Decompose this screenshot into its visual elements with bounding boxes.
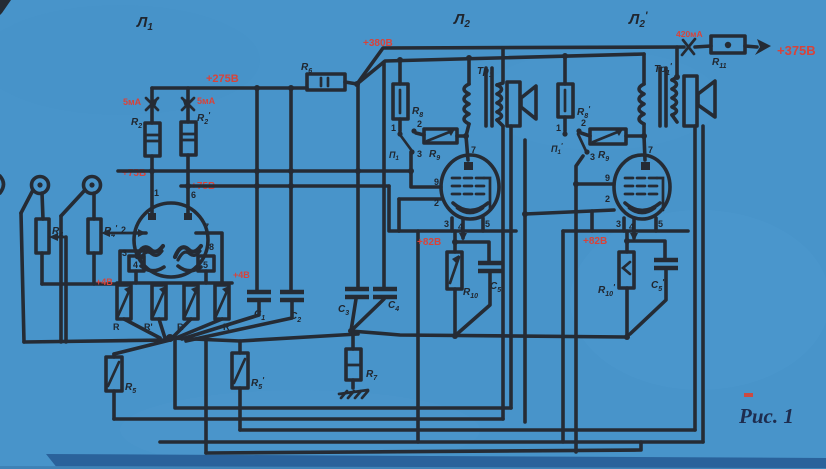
svg-text:5мА: 5мА <box>123 97 142 107</box>
L1 pin3 lead down to pot row <box>120 251 147 283</box>
node sec' top <box>674 74 680 80</box>
wire speaker1 frame lead down <box>509 126 513 408</box>
svg-text:2: 2 <box>581 118 586 128</box>
wire pot1 to fan <box>124 319 160 338</box>
node R10 bottom <box>452 333 458 339</box>
input jack 2 <box>61 177 101 220</box>
resistor R2' <box>181 88 211 186</box>
wire jack1 ground down left edge <box>21 213 24 342</box>
resistor R10' <box>598 252 634 337</box>
rail pin1 (+75V) to P1 switch <box>118 169 411 173</box>
Tr1' secondary coil <box>672 47 677 122</box>
resistor R5' <box>232 341 265 430</box>
node cathode L2 <box>452 239 458 245</box>
L1 pin2 grid lead <box>121 225 146 237</box>
svg-text:7: 7 <box>471 145 476 155</box>
svg-text:+375В: +375В <box>777 43 816 58</box>
L1 pin1 lead <box>148 171 159 220</box>
node bus2 R8' <box>562 53 568 59</box>
switch P1' <box>551 118 595 162</box>
bus +380V <box>357 54 644 84</box>
resistor R9' <box>581 129 644 163</box>
svg-text:3: 3 <box>444 219 449 229</box>
L2' pin2 lead <box>525 194 614 231</box>
wire rail2 drop <box>389 186 399 231</box>
svg-text:+380В: +380В <box>363 38 393 49</box>
potentiometer R3d <box>215 285 230 332</box>
speaker 2 <box>684 76 715 126</box>
L1 grid 2 squiggle <box>175 246 201 257</box>
triode L1 envelope <box>134 203 208 277</box>
L1 cathode arc 1 <box>141 266 164 271</box>
wiper P1' link down to grid row <box>576 156 583 184</box>
arrow terminal +375V <box>755 39 771 55</box>
svg-text:+275В: +275В <box>206 73 239 85</box>
node on bus at C1 <box>254 85 260 91</box>
svg-text:5: 5 <box>203 260 208 270</box>
node rail1 x291 <box>288 168 294 174</box>
node rail1 x358 <box>355 168 361 174</box>
L1 pin5 box <box>198 256 214 283</box>
svg-text:1: 1 <box>556 123 561 133</box>
L2 pin2 lead <box>399 198 441 231</box>
potentiometer R3a <box>113 285 131 332</box>
L2 screen bend wire <box>484 178 490 210</box>
node pin2' junction <box>522 211 528 217</box>
resistor R8 <box>393 60 423 131</box>
Tr1 secondary coil <box>497 48 503 126</box>
L2 pin5 lead <box>483 218 490 231</box>
svg-text:9: 9 <box>605 173 610 183</box>
L2' pin5 lead <box>656 218 663 231</box>
Tr1 primary coil <box>464 58 469 136</box>
top bus +375V <box>357 47 684 84</box>
resistor R11 <box>711 36 745 70</box>
svg-text:8: 8 <box>209 242 214 252</box>
pentode L2 envelope <box>441 155 499 219</box>
node cathode L2' <box>624 238 630 244</box>
wire switch return left channel <box>416 231 420 442</box>
svg-text:1: 1 <box>154 188 159 198</box>
svg-text:3: 3 <box>122 248 127 258</box>
wire cathode node' <box>625 231 629 252</box>
svg-text:4: 4 <box>458 222 463 232</box>
node rail1 x257 <box>254 168 260 174</box>
+275V bus <box>152 86 307 90</box>
speaker 1 <box>507 82 536 126</box>
wire grid' return down to bottom rail <box>574 184 578 452</box>
svg-text:4: 4 <box>133 260 138 270</box>
L2 grid rows <box>452 178 484 194</box>
L2' cathode cup <box>625 203 660 211</box>
resistor R10 <box>447 252 478 336</box>
bottom rail L1 <box>175 338 511 408</box>
rail pin6 to cathode line <box>181 184 389 188</box>
wire cathode node <box>453 231 457 252</box>
wire R11 out <box>745 46 757 47</box>
svg-text:+4В: +4В <box>233 270 250 280</box>
resistor R9 <box>416 129 466 162</box>
potentiometer R3c <box>177 285 198 332</box>
fuse symbol 420mA <box>682 39 695 55</box>
resistor R7 <box>346 331 378 388</box>
wire long vertical x525 <box>523 140 527 422</box>
wire grid' branch to pin9' <box>576 182 614 186</box>
5mA arrow right <box>182 98 194 110</box>
L2' cathode rail <box>563 229 688 233</box>
node rail2 x257 <box>254 183 260 189</box>
svg-text:Рис. 1: Рис. 1 <box>738 404 794 428</box>
svg-text:420мА: 420мА <box>676 29 703 39</box>
potentiometer R3b <box>144 285 166 332</box>
svg-text:3: 3 <box>417 149 422 159</box>
resistor R4' <box>88 219 118 284</box>
svg-text:3: 3 <box>590 152 595 162</box>
node on bus at C2 <box>288 85 294 91</box>
capacitor C1 <box>182 88 271 339</box>
wire R4/R4' bottom tie <box>42 282 117 286</box>
L2' screen bend wire <box>657 178 663 210</box>
svg-text:3: 3 <box>616 219 621 229</box>
node X under C3/C4 <box>348 328 354 334</box>
wiper P1 to pin9 drop <box>409 152 413 171</box>
R4' wiper arrow from grid pin2 <box>101 229 134 237</box>
L2 pin4 lead <box>458 219 467 241</box>
L1 grid 1 squiggle <box>137 246 163 257</box>
dark bottom edge strip <box>46 454 826 469</box>
wire pot2 to fan <box>159 319 165 338</box>
node grid' <box>573 181 579 187</box>
svg-text:+82В: +82В <box>583 236 607 247</box>
5mA arrow left <box>146 98 158 110</box>
wire speaker1 leads down <box>501 126 505 419</box>
svg-text:2: 2 <box>121 225 126 235</box>
wire pot3 to fan <box>172 319 191 338</box>
node rail2 x188 <box>185 183 191 189</box>
svg-text:2: 2 <box>434 198 439 208</box>
svg-text:4: 4 <box>629 222 634 232</box>
L2 cathode cup inner <box>457 208 483 213</box>
node rail1 x152 <box>149 168 155 174</box>
pot row top bus <box>117 283 232 284</box>
capacitor C5 <box>455 242 502 334</box>
capacitor C4 <box>353 62 399 329</box>
L1 cathode arc 2 <box>178 266 201 271</box>
L2' pin3 lead <box>616 218 624 231</box>
L1 pin7 lead down to pot row <box>196 222 222 283</box>
L1 pin4 box <box>122 248 144 283</box>
resistor R8' <box>558 56 591 131</box>
node bus2 R8 <box>397 57 403 63</box>
wire fan to rail L5 <box>204 340 208 453</box>
svg-text:5: 5 <box>658 219 663 229</box>
L2' grid rows <box>625 178 657 194</box>
svg-text:7: 7 <box>648 145 653 155</box>
bottom rail L3 <box>240 428 695 432</box>
L2 pin3 lead <box>444 218 452 231</box>
red tick above caption <box>744 393 753 397</box>
wire fan to R5' bus <box>170 334 358 341</box>
bottom rail L5 <box>206 442 641 453</box>
svg-text:+4В: +4В <box>96 277 113 287</box>
capacitor C2 <box>186 88 304 341</box>
Tr1' core <box>660 68 666 126</box>
capacitor C3 <box>338 84 369 331</box>
input jack 1 <box>21 177 49 220</box>
Tr1 core <box>486 68 492 126</box>
bottom rail L2 <box>114 417 503 421</box>
L2 anode lead pin7 <box>464 136 476 170</box>
R4 wiper arrow <box>49 233 66 342</box>
svg-text:7: 7 <box>204 222 209 232</box>
node R6 out <box>354 81 360 87</box>
node bus2 Tr1 <box>466 55 472 61</box>
wire pot4 to fan <box>176 319 222 338</box>
svg-text:2: 2 <box>605 194 610 204</box>
scan mark left edge <box>0 176 4 193</box>
wire X to cathode rail right <box>351 331 626 337</box>
wire rail1 to L2 pin9 <box>411 171 441 187</box>
node rail2 x291 <box>288 183 294 189</box>
Tr1' primary coil <box>639 54 644 136</box>
L2' cathode cup inner <box>629 208 655 213</box>
svg-text:9: 9 <box>434 177 439 187</box>
svg-text:6: 6 <box>191 190 196 200</box>
resistor R4 <box>36 219 63 284</box>
dark corner mark top-left <box>0 0 11 15</box>
wire speaker2 frame lead down <box>701 126 705 442</box>
resistor R5 <box>106 354 136 419</box>
L2' pin4 lead <box>629 219 638 241</box>
L2 cathode rail <box>399 229 516 233</box>
bottom rail L4 <box>160 440 703 444</box>
resistor R6 <box>301 62 357 90</box>
wire cathode rail' left end down <box>561 231 565 442</box>
node R10' bottom <box>624 334 630 340</box>
node anode L2' <box>641 133 647 139</box>
L1 pin6 lead <box>184 186 196 220</box>
wire speaker2 lead down <box>693 126 697 430</box>
wire jack2 ground down <box>59 216 63 342</box>
capacitor C5' <box>627 241 678 334</box>
fan junction node <box>24 334 174 354</box>
pentode L2' envelope <box>614 155 670 219</box>
svg-text:5мА: 5мА <box>197 96 216 106</box>
resistor R2 <box>131 88 160 171</box>
L2' anode lead pin7 <box>641 136 653 170</box>
svg-text:R: R <box>113 322 120 332</box>
svg-text:2: 2 <box>417 119 422 129</box>
ground symbol <box>339 390 368 398</box>
svg-text:5: 5 <box>485 219 490 229</box>
L2 cathode cup <box>453 203 488 211</box>
svg-text:1: 1 <box>391 123 396 133</box>
wire fuse to R11 <box>695 46 711 47</box>
svg-text:+82В: +82В <box>417 237 441 248</box>
node anode L2 <box>463 133 469 139</box>
switch P1 <box>389 119 422 162</box>
